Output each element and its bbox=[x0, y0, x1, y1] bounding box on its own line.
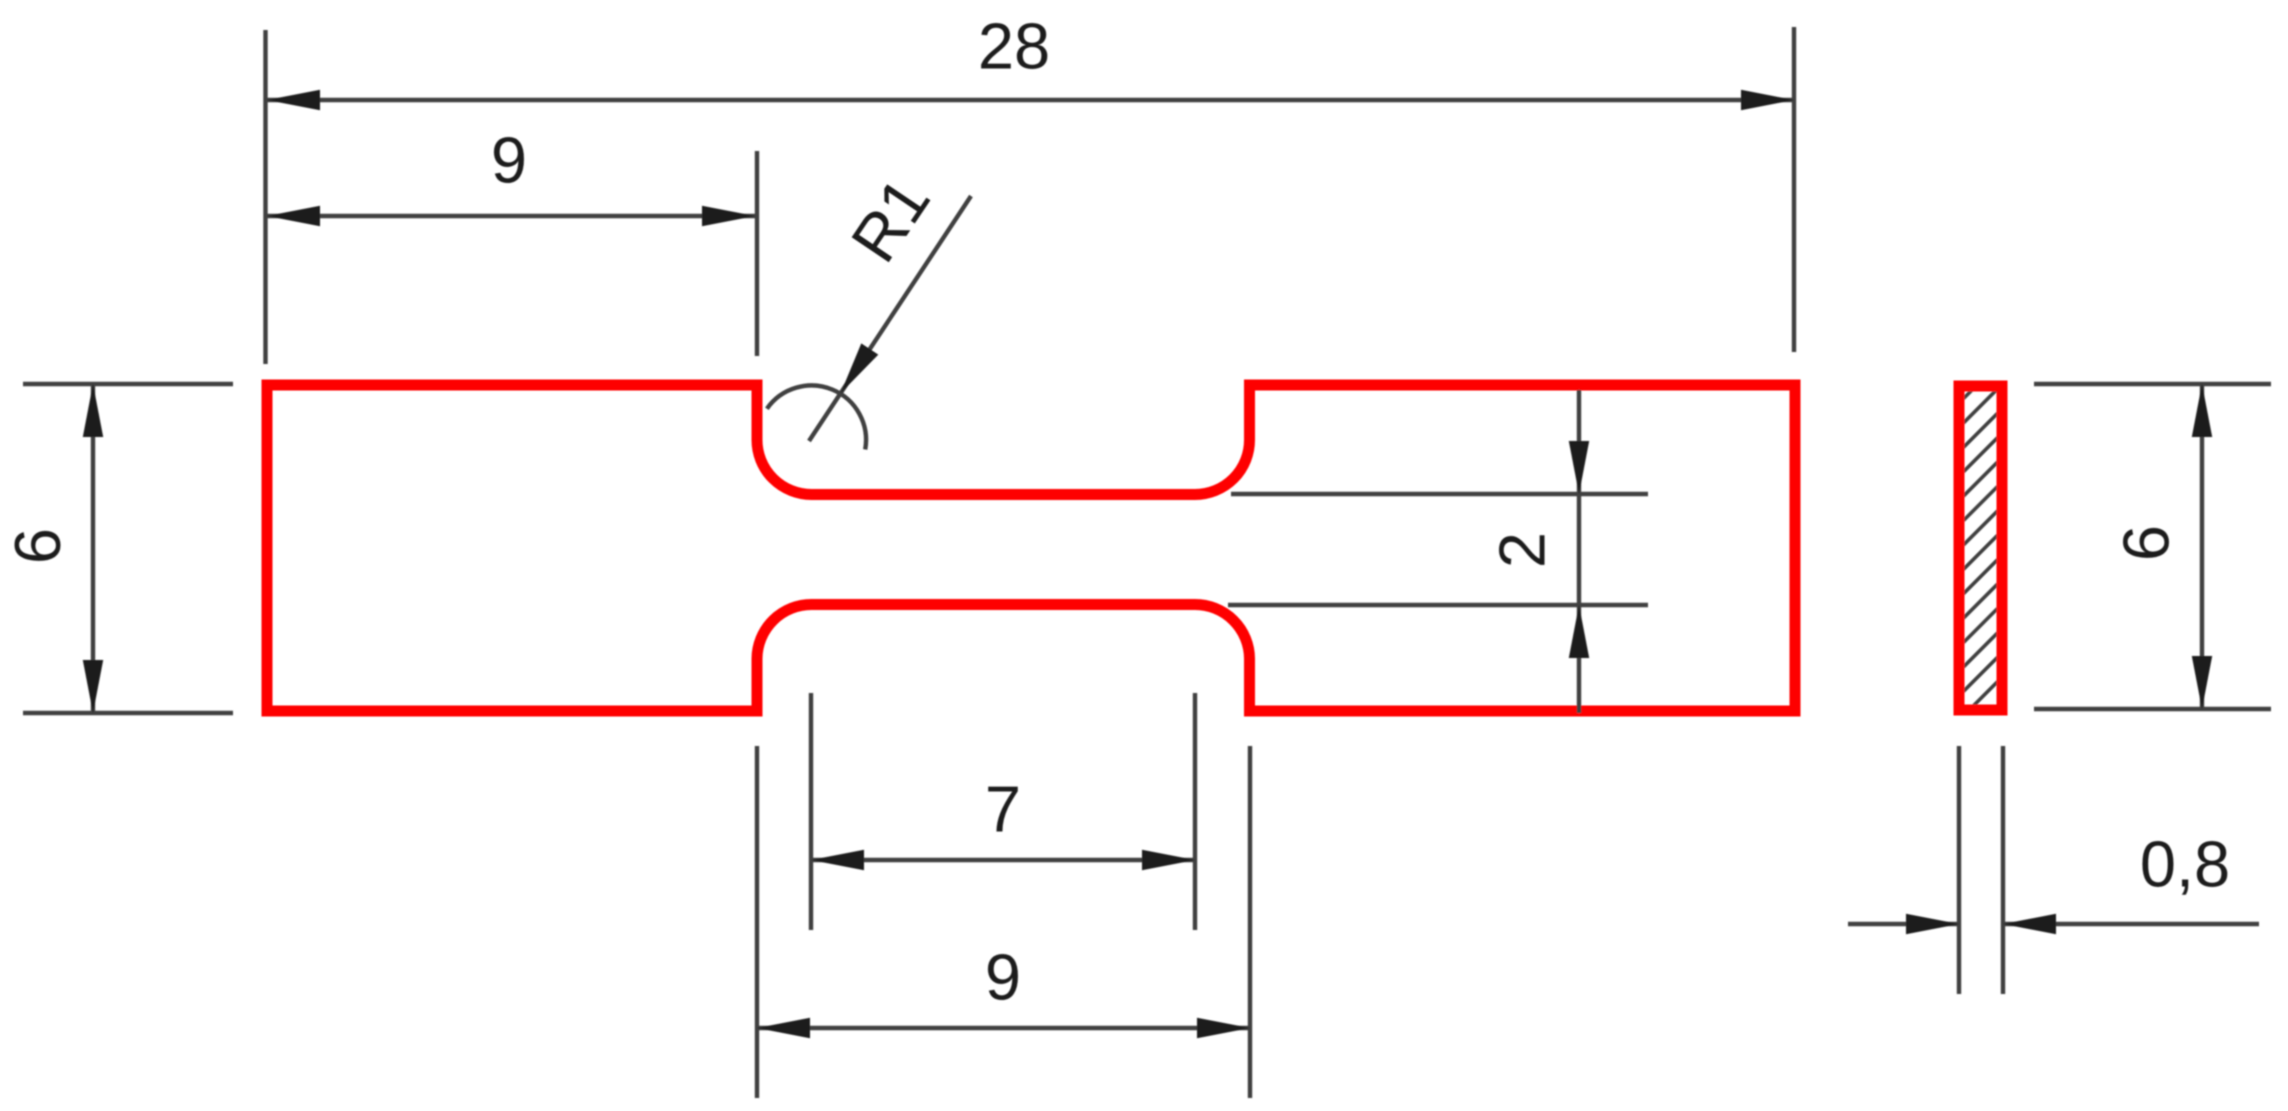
svg-text:28: 28 bbox=[978, 10, 1050, 83]
svg-text:0,8: 0,8 bbox=[2140, 828, 2230, 901]
svg-text:9: 9 bbox=[985, 941, 1021, 1014]
svg-text:7: 7 bbox=[985, 773, 1021, 846]
svg-text:6: 6 bbox=[1, 528, 74, 564]
svg-text:9: 9 bbox=[491, 124, 527, 197]
svg-text:2: 2 bbox=[1486, 532, 1559, 568]
svg-text:6: 6 bbox=[2110, 525, 2183, 561]
